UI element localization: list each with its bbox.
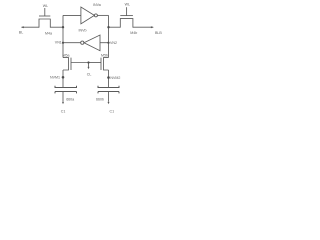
svg-text:INVa: INVa bbox=[93, 3, 101, 7]
svg-text:660b: 660b bbox=[96, 97, 104, 101]
svg-text:VN2: VN2 bbox=[110, 41, 117, 45]
svg-text:WL: WL bbox=[125, 3, 130, 7]
svg-text:C1: C1 bbox=[61, 110, 66, 114]
svg-text:C1: C1 bbox=[110, 110, 115, 114]
svg-text:INVb: INVb bbox=[79, 28, 87, 32]
svg-text:BLB: BLB bbox=[155, 31, 162, 35]
svg-text:NVM1: NVM1 bbox=[50, 75, 60, 79]
svg-text:660a: 660a bbox=[66, 97, 74, 101]
svg-text:M4a: M4a bbox=[45, 31, 52, 35]
svg-text:BL: BL bbox=[19, 30, 23, 34]
svg-text:WL: WL bbox=[43, 4, 48, 8]
svg-text:VN1: VN1 bbox=[55, 40, 62, 44]
svg-text:NVM2: NVM2 bbox=[110, 76, 120, 80]
svg-text:M4b: M4b bbox=[130, 31, 137, 35]
svg-text:M5b: M5b bbox=[101, 54, 108, 58]
svg-text:CL: CL bbox=[87, 72, 92, 76]
svg-text:M5a: M5a bbox=[63, 54, 70, 58]
